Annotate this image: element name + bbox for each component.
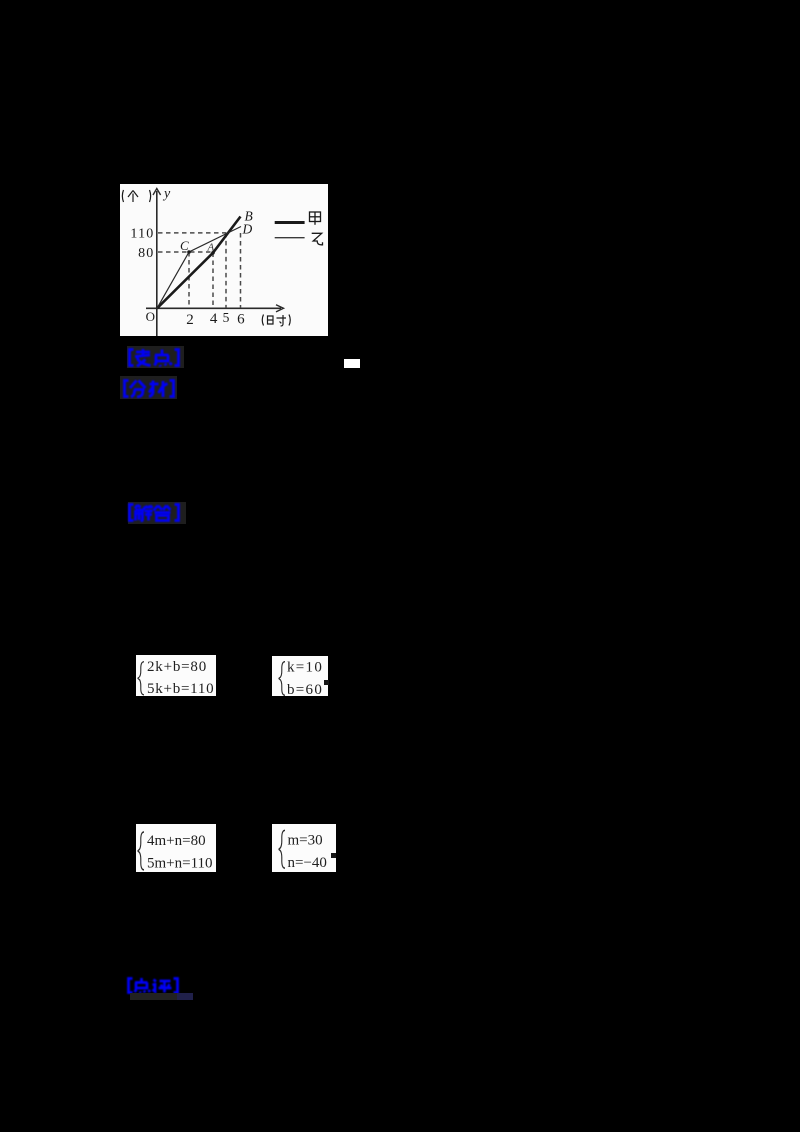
svg-text:m=30: m=30 [288, 833, 323, 849]
svg-text:D: D [242, 222, 253, 237]
comma after box 2 [324, 680, 329, 685]
formula box 4: m=30 / n=-40 [272, 824, 336, 872]
svg-text:C: C [180, 238, 189, 253]
dashed line x=2 [188, 252, 190, 308]
svg-text:110: 110 [130, 227, 154, 242]
svg-text:5m+n=110: 5m+n=110 [147, 855, 213, 871]
legend yi glyph [312, 233, 323, 245]
legend thick line [275, 221, 305, 224]
svg-text:n=−40: n=−40 [288, 855, 327, 871]
label dianping blue text [127, 977, 179, 994]
label jieda blue text [128, 503, 180, 522]
star mark after box 4 [331, 853, 336, 858]
legend jia glyph [310, 212, 321, 225]
dashed line y=110 [158, 232, 226, 234]
white dash mark [344, 359, 360, 368]
svg-text:4m+n=80: 4m+n=80 [147, 833, 206, 849]
label fenxi background [120, 376, 177, 399]
svg-text:5: 5 [223, 310, 230, 325]
svg-text:80: 80 [138, 246, 154, 261]
thick line jia: O-A-B [157, 217, 241, 309]
navy underline segment [177, 993, 193, 1000]
dashed line x=4 [212, 253, 214, 309]
svg-text:y: y [162, 187, 171, 202]
svg-text:2k+b=80: 2k+b=80 [147, 659, 207, 675]
svg-text:O: O [146, 309, 155, 324]
label (ge) y unit [122, 190, 150, 202]
svg-text:6: 6 [237, 312, 245, 328]
label jieda background [128, 502, 186, 524]
y-axis [153, 189, 161, 337]
legend thin line [275, 237, 305, 239]
graph figure (white box) [120, 184, 328, 336]
x-axis [146, 305, 284, 312]
formula box 2: k=10 / b=60 [272, 656, 328, 696]
label fenxi blue text [123, 379, 175, 398]
svg-text:2: 2 [186, 312, 194, 328]
formula box 3: 4m+n=80 / 5m+n=110 [136, 824, 216, 872]
svg-text:k=10: k=10 [287, 660, 323, 676]
svg-text:4: 4 [210, 311, 218, 327]
svg-text:b=60: b=60 [287, 682, 323, 696]
dashed line y=80 [158, 251, 213, 253]
grey underline under dianping [130, 993, 177, 1000]
svg-text:A: A [207, 242, 215, 254]
thin line yi: O-C-D [157, 227, 241, 309]
dot C [187, 250, 191, 254]
dot A [211, 251, 215, 255]
label kaodian background [127, 346, 184, 368]
label (shi) x unit [262, 315, 290, 326]
svg-text:5k+b=110: 5k+b=110 [147, 681, 214, 696]
dashed line x=5 [225, 233, 227, 308]
dashed line x=6 [240, 233, 242, 308]
formula box 1: 2k+b=80 / 5k+b=110 [136, 655, 216, 696]
label kaodian blue text [128, 348, 180, 367]
